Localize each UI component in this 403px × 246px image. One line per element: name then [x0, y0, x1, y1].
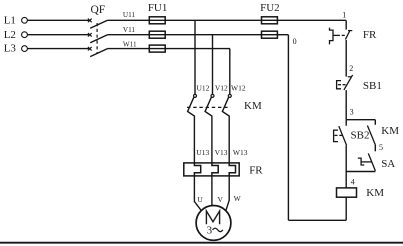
svg-text:FU2: FU2: [260, 2, 280, 14]
svg-text:U13: U13: [196, 148, 209, 157]
svg-text:SA: SA: [381, 158, 395, 170]
svg-text:V12: V12: [215, 83, 228, 92]
svg-text:L2: L2: [4, 29, 16, 41]
svg-text:L1: L1: [4, 14, 16, 26]
svg-text:1: 1: [342, 10, 346, 19]
svg-text:4: 4: [351, 177, 355, 186]
svg-text:QF: QF: [90, 4, 105, 16]
svg-text:W12: W12: [231, 83, 246, 92]
svg-text:SB2: SB2: [351, 130, 370, 142]
svg-text:W11: W11: [123, 40, 137, 48]
svg-text:5: 5: [379, 143, 383, 152]
svg-text:0: 0: [293, 37, 297, 46]
svg-text:2: 2: [349, 64, 353, 73]
svg-text:V11: V11: [123, 26, 136, 34]
svg-text:3: 3: [350, 108, 354, 117]
svg-text:U: U: [197, 195, 203, 204]
svg-text:W: W: [234, 194, 242, 203]
svg-text:SB1: SB1: [363, 80, 382, 92]
svg-text:L3: L3: [4, 43, 17, 55]
svg-text:KM: KM: [366, 187, 384, 199]
svg-text:U11: U11: [123, 11, 136, 19]
svg-text:V13: V13: [215, 148, 228, 157]
svg-text:FR: FR: [249, 164, 263, 176]
svg-text:KM: KM: [244, 100, 262, 112]
svg-text:KM: KM: [381, 125, 399, 137]
svg-text:FR: FR: [363, 29, 377, 41]
svg-text:W13: W13: [233, 148, 248, 157]
svg-text:FU1: FU1: [148, 2, 168, 14]
svg-text:U12: U12: [197, 83, 210, 92]
svg-text:3: 3: [207, 225, 213, 237]
svg-text:V: V: [218, 195, 224, 204]
